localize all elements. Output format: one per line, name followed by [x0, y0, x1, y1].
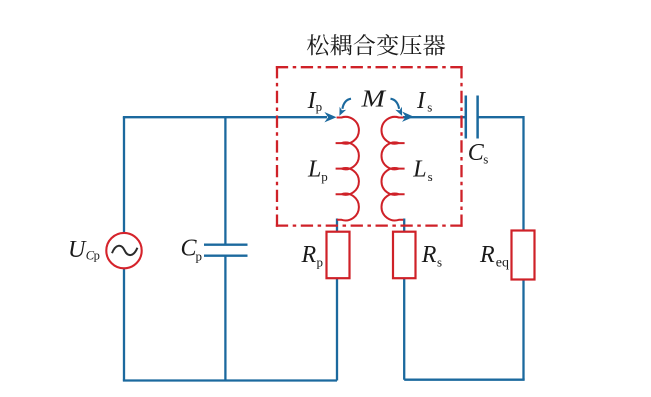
svg-text:R: R — [479, 242, 495, 268]
svg-text:R: R — [421, 242, 437, 268]
svg-text:p: p — [321, 169, 328, 184]
svg-text:p: p — [94, 249, 100, 263]
wire Cp branch upper — [224, 117, 226, 245]
svg-text:I: I — [416, 88, 426, 114]
arrowhead Is — [402, 112, 414, 122]
svg-text:s: s — [437, 254, 442, 269]
resistor Rs — [393, 232, 416, 279]
arrowhead Ip — [324, 112, 336, 122]
capacitor Cp — [204, 245, 248, 256]
title text 松耦合变压器 — [307, 34, 445, 56]
wire Rp branch — [336, 219, 338, 381]
source sine wave — [112, 246, 137, 255]
transformer dash-dot box — [276, 66, 463, 227]
svg-text:s: s — [427, 100, 432, 115]
svg-text:s: s — [483, 152, 488, 167]
inductor Ls — [381, 117, 404, 221]
svg-text:p: p — [316, 99, 323, 114]
svg-text:s: s — [428, 169, 433, 184]
wire right vertical below Req — [522, 279, 524, 380]
svg-text:C: C — [468, 140, 485, 166]
wire bottom primary — [123, 379, 337, 381]
wire bottom secondary — [404, 379, 524, 381]
svg-text:R: R — [301, 242, 317, 268]
svg-text:eq: eq — [496, 255, 509, 270]
svg-text:p: p — [317, 254, 324, 269]
svg-text:L: L — [412, 156, 426, 182]
svg-text:U: U — [68, 237, 87, 263]
wire secondary top with arrow — [403, 116, 466, 118]
wire Cp branch lower — [224, 256, 226, 381]
wire left vertical — [123, 117, 125, 381]
svg-text:L: L — [307, 156, 321, 182]
source UCp circle — [106, 233, 141, 268]
svg-text:p: p — [196, 249, 203, 264]
resistor Req — [512, 231, 535, 280]
mutual arrow right — [391, 99, 400, 109]
svg-text:M: M — [360, 86, 387, 112]
wire top horizontal primary — [123, 116, 327, 118]
capacitor Cs — [466, 96, 478, 139]
wire Rs branch — [403, 219, 405, 380]
inductor Lp — [336, 117, 359, 221]
resistor Rp — [327, 232, 350, 279]
wire Cs to right corner — [478, 117, 524, 231]
mutual arrow left — [342, 99, 351, 109]
